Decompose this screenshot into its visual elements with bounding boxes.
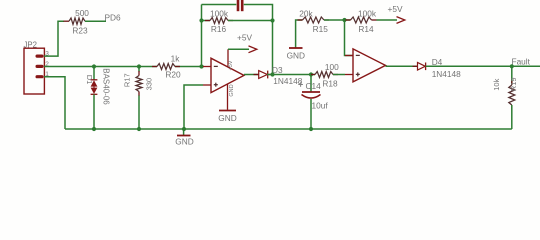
svg-text:100k: 100k: [358, 9, 377, 19]
wire node down to U2 - input: [345, 20, 354, 56]
resistor R15: [298, 19, 303, 21]
svg-text:1k: 1k: [171, 53, 181, 63]
wire feedback top to capacitor: [202, 4, 237, 6]
junction dot +input rail: [182, 127, 186, 131]
diode D3: [254, 71, 273, 79]
resistor R16: [205, 20, 210, 22]
connector JP2: [24, 48, 44, 94]
junction dot R17 rail: [137, 127, 141, 131]
supply +5V arrow (right): [397, 17, 405, 24]
wire D3 to R18: [267, 74, 315, 76]
capacitor C14: [302, 75, 321, 130]
C14 plus sign: [298, 82, 303, 87]
wire R16 left lead: [202, 20, 211, 22]
svg-text:R17: R17: [122, 73, 131, 87]
svg-text:100k: 100k: [210, 9, 229, 19]
svg-text:R15: R15: [313, 24, 329, 34]
gnd symbol on rail: [177, 129, 191, 136]
resistor R18: [311, 74, 315, 76]
junction dot D1 rail: [92, 127, 96, 131]
svg-text:JP2: JP2: [24, 40, 37, 49]
svg-text:+5V: +5V: [388, 4, 403, 14]
svg-text:GND: GND: [229, 84, 235, 96]
wire R18 to U2 + input: [333, 74, 345, 76]
svg-text:R23: R23: [72, 26, 88, 36]
resistor R23: [64, 20, 70, 22]
U1 +5V pin stub: [227, 49, 229, 67]
svg-text:D1: D1: [85, 75, 94, 85]
svg-text:PD6: PD6: [105, 13, 122, 23]
wire JP2 pin1 to ground rail: [44, 77, 65, 129]
wire GND corner to R15: [296, 20, 303, 48]
svg-text:R16: R16: [211, 24, 227, 34]
junction dot R17 top: [137, 64, 141, 68]
resistor R17: [136, 66, 142, 129]
wire R16 right lead: [228, 20, 273, 22]
resistor R19: [509, 66, 515, 129]
op-amp U1: [203, 58, 244, 92]
svg-text:GND: GND: [175, 137, 193, 147]
wire ground rail: [65, 128, 512, 130]
wire JP2 pin3 to R23: [44, 21, 64, 56]
svg-text:+5V: +5V: [228, 60, 234, 70]
diode D1 (dual BAS40-06): [91, 66, 98, 129]
junction dot Fault/R19: [510, 64, 514, 68]
wire feedback left vertical: [201, 5, 203, 67]
wire JP2 pin2 to op-amp U1 inverting input: [44, 66, 157, 68]
op-amp U2: [345, 49, 386, 82]
svg-text:C14: C14: [306, 81, 322, 91]
junction dot R15/R14 node: [342, 18, 346, 22]
svg-text:BAS40-06: BAS40-06: [102, 68, 111, 105]
diode D4: [413, 63, 431, 71]
wire U1 + input to ground rail: [184, 85, 203, 129]
svg-text:R18: R18: [322, 78, 338, 88]
gnd symbol under U1: [219, 110, 236, 112]
svg-text:10k: 10k: [492, 78, 501, 90]
junction dot C14 rail: [309, 127, 313, 131]
svg-text:GND: GND: [218, 113, 236, 123]
svg-text:10uf: 10uf: [312, 101, 329, 111]
resistor R20: [152, 66, 157, 68]
wire U1 output to D3: [244, 74, 259, 76]
svg-text:20k: 20k: [299, 8, 313, 18]
svg-text:R14: R14: [358, 24, 374, 34]
junction dot D3 feedback: [270, 72, 274, 76]
resistor R14: [346, 19, 351, 21]
wire R14 to +5V: [377, 19, 398, 21]
svg-text:R20: R20: [165, 70, 181, 80]
gnd symbol at R15: [289, 47, 303, 49]
wire capacitor to feedback right vertical: [244, 5, 273, 75]
svg-text:500: 500: [75, 8, 89, 18]
junction dot R16 left: [199, 18, 203, 22]
wire R15 to R14: [324, 19, 351, 21]
svg-text:100: 100: [325, 62, 339, 72]
wire R23 to PD6: [85, 20, 106, 22]
junction dot D1 top: [92, 64, 96, 68]
wire U2 output to D4: [386, 65, 418, 67]
svg-text:GND: GND: [287, 51, 305, 61]
wire R20 right to U1: [175, 66, 204, 68]
svg-text:R19: R19: [509, 77, 518, 91]
junction dot C14 tap: [309, 72, 313, 76]
supply +5V arrow (U1): [228, 46, 257, 53]
svg-text:1N4148: 1N4148: [432, 69, 461, 79]
svg-text:Fault: Fault: [512, 56, 531, 66]
junction dot R16 right: [270, 18, 274, 22]
U1 GND pin stub: [227, 84, 229, 110]
capacitor C (feedback): [238, 0, 242, 11]
wire D4 to Fault: [426, 65, 540, 67]
junction node A (U1 inverting input): [199, 64, 203, 68]
svg-text:+5V: +5V: [237, 32, 252, 42]
svg-text:330: 330: [145, 78, 154, 91]
